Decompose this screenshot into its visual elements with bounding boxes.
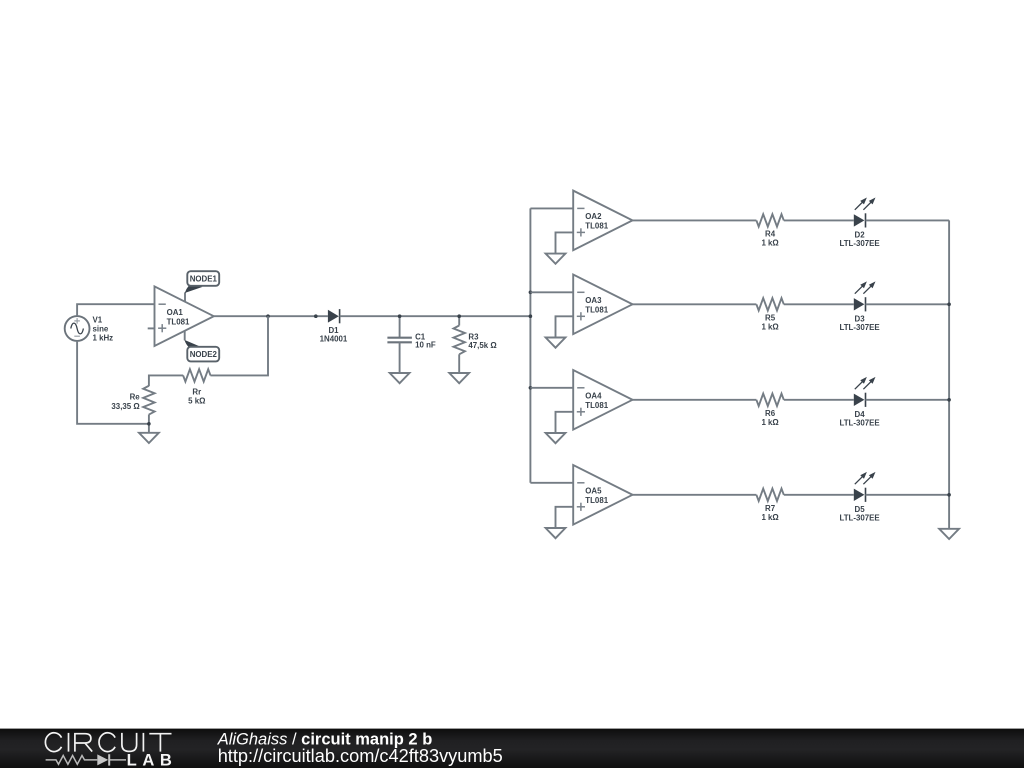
wire OA2 non-inverting input to ground [556, 232, 574, 253]
svg-text:OA2: OA2 [585, 212, 602, 221]
wire D2 to right bus [866, 219, 950, 221]
ground below C1 [390, 373, 410, 383]
svg-text:1 kΩ: 1 kΩ [761, 513, 778, 522]
right bus wire [948, 220, 950, 528]
wire OA5 non-inverting input to ground [556, 507, 574, 528]
junction right bus row D4 [947, 398, 951, 402]
svg-text:TL081: TL081 [585, 496, 608, 505]
svg-text:33,35 Ω: 33,35 Ω [111, 402, 139, 411]
resistor Rr [183, 369, 210, 405]
wire D4 to right bus [866, 399, 950, 401]
pin stub OA1 non-inverting input [148, 327, 155, 329]
ground below OA4 non-inverting input [546, 433, 566, 443]
resistor R4 [756, 214, 783, 247]
junction right bus row D5 [947, 493, 951, 497]
svg-text:LTL-307EE: LTL-307EE [839, 239, 879, 248]
svg-text:OA1: OA1 [167, 308, 184, 317]
svg-text:NODE1: NODE1 [190, 274, 218, 283]
ground below OA2 non-inverting input [546, 254, 566, 264]
op-amp OA4 [573, 370, 632, 430]
LED D4 [839, 377, 879, 428]
resistor R3 [454, 326, 497, 355]
resistor R5 [756, 298, 783, 331]
svg-text:10 nF: 10 nF [415, 341, 436, 350]
LED D2 [839, 198, 879, 249]
CircuitLab logo [45, 733, 177, 768]
svg-text:Re: Re [130, 393, 141, 402]
ground below R3 [449, 373, 469, 383]
wire R6 to D4 [784, 399, 854, 401]
svg-text:D5: D5 [855, 505, 866, 514]
wire R4 to D2 [784, 219, 854, 221]
svg-text:1 kΩ: 1 kΩ [761, 418, 778, 427]
wire OA4 non-inverting input to ground [556, 412, 574, 433]
svg-text:TL081: TL081 [585, 222, 608, 231]
wire R3 top lead [458, 316, 460, 325]
svg-text:LAB: LAB [127, 751, 178, 768]
wire V1 bottom to ground node [77, 341, 149, 424]
svg-text:47,5k Ω: 47,5k Ω [468, 341, 496, 350]
svg-text:1N4001: 1N4001 [320, 335, 348, 344]
op-amp OA5 [573, 465, 632, 525]
svg-text:1 kΩ: 1 kΩ [761, 323, 778, 332]
svg-text:TL081: TL081 [167, 318, 190, 327]
op-amp OA1 [155, 286, 214, 346]
junction bus to OA3 [529, 291, 533, 295]
svg-text:R4: R4 [765, 230, 776, 239]
svg-text:R6: R6 [765, 409, 776, 418]
wire bus to OA2 inverting input [530, 207, 573, 209]
left bus wire [529, 208, 531, 482]
wire OA3 non-inverting input to ground [556, 316, 574, 337]
svg-text:OA3: OA3 [585, 296, 602, 305]
resistor R6 [756, 394, 783, 427]
wire feedback from output junction down [210, 316, 268, 375]
wire D1 cathode to op-amp bus [340, 315, 531, 317]
LED D3 [839, 281, 879, 332]
svg-text:5 kΩ: 5 kΩ [188, 397, 205, 406]
svg-text:Rr: Rr [192, 388, 201, 397]
wire OA5 output to R7 [633, 494, 757, 496]
svg-text:D4: D4 [855, 410, 866, 419]
junction C1 tap [398, 314, 402, 318]
junction before D1 [314, 314, 318, 318]
junction OA1 output feedback tap [266, 314, 270, 318]
wire V1 top to OA1 inverting input [77, 304, 154, 316]
ground below Re [139, 433, 159, 443]
resistor Re [111, 386, 154, 415]
wire OA3 output to R5 [633, 303, 757, 305]
voltage source V1 [65, 316, 113, 343]
svg-text:sine: sine [93, 325, 109, 334]
svg-text:LTL-307EE: LTL-307EE [839, 419, 879, 428]
wire OA1 output to D1 anode [214, 315, 328, 317]
wire OA4 output to R6 [633, 399, 757, 401]
wire bus to OA4 inverting input [530, 387, 573, 389]
wire R7 to D5 [784, 494, 854, 496]
svg-text:TL081: TL081 [585, 306, 608, 315]
svg-text:LTL-307EE: LTL-307EE [839, 514, 879, 523]
junction bus to OA4 [529, 386, 533, 390]
svg-text:OA5: OA5 [585, 487, 602, 496]
ground at right bus bottom [939, 529, 959, 539]
svg-text:http://circuitlab.com/c42ft83v: http://circuitlab.com/c42ft83vyumb5 [218, 746, 503, 766]
wire bus to OA5 inverting input [530, 482, 573, 484]
junction bus main input [529, 314, 533, 318]
wire bus to OA3 inverting input [530, 291, 573, 293]
node label NODE2 on OA1 V- pin [184, 331, 219, 362]
svg-text:TL081: TL081 [585, 401, 608, 410]
capacitor C1 [387, 316, 435, 373]
node label NODE1 on OA1 V+ pin [185, 271, 220, 302]
svg-text:1 kHz: 1 kHz [93, 334, 114, 343]
svg-text:R7: R7 [765, 504, 776, 513]
wire D5 to right bus [866, 494, 950, 496]
wire R5 to D3 [784, 303, 854, 305]
svg-text:1 kΩ: 1 kΩ [761, 239, 778, 248]
svg-text:D3: D3 [855, 314, 866, 323]
svg-text:D2: D2 [855, 230, 866, 239]
svg-text:NODE2: NODE2 [190, 350, 218, 359]
junction Re bottom [147, 422, 151, 426]
ground below OA5 non-inverting input [546, 528, 566, 538]
svg-text:OA4: OA4 [585, 392, 602, 401]
svg-text:R5: R5 [765, 314, 776, 323]
resistor R7 [756, 489, 783, 522]
wire D3 to right bus [866, 303, 950, 305]
wire Rr to Re corner [149, 375, 183, 386]
ground below OA3 non-inverting input [546, 338, 566, 348]
wire Re bottom to ground junction [148, 415, 150, 433]
junction R3 tap [457, 314, 461, 318]
op-amp OA3 [573, 275, 632, 335]
svg-text:LTL-307EE: LTL-307EE [839, 323, 879, 332]
diode D1 [320, 309, 348, 344]
LED D5 [839, 472, 879, 523]
svg-text:V1: V1 [93, 316, 103, 325]
wire R3 bottom lead [458, 354, 460, 373]
junction right bus row D3 [947, 303, 951, 307]
op-amp OA2 [573, 191, 632, 251]
wire OA2 output to R4 [633, 219, 757, 221]
